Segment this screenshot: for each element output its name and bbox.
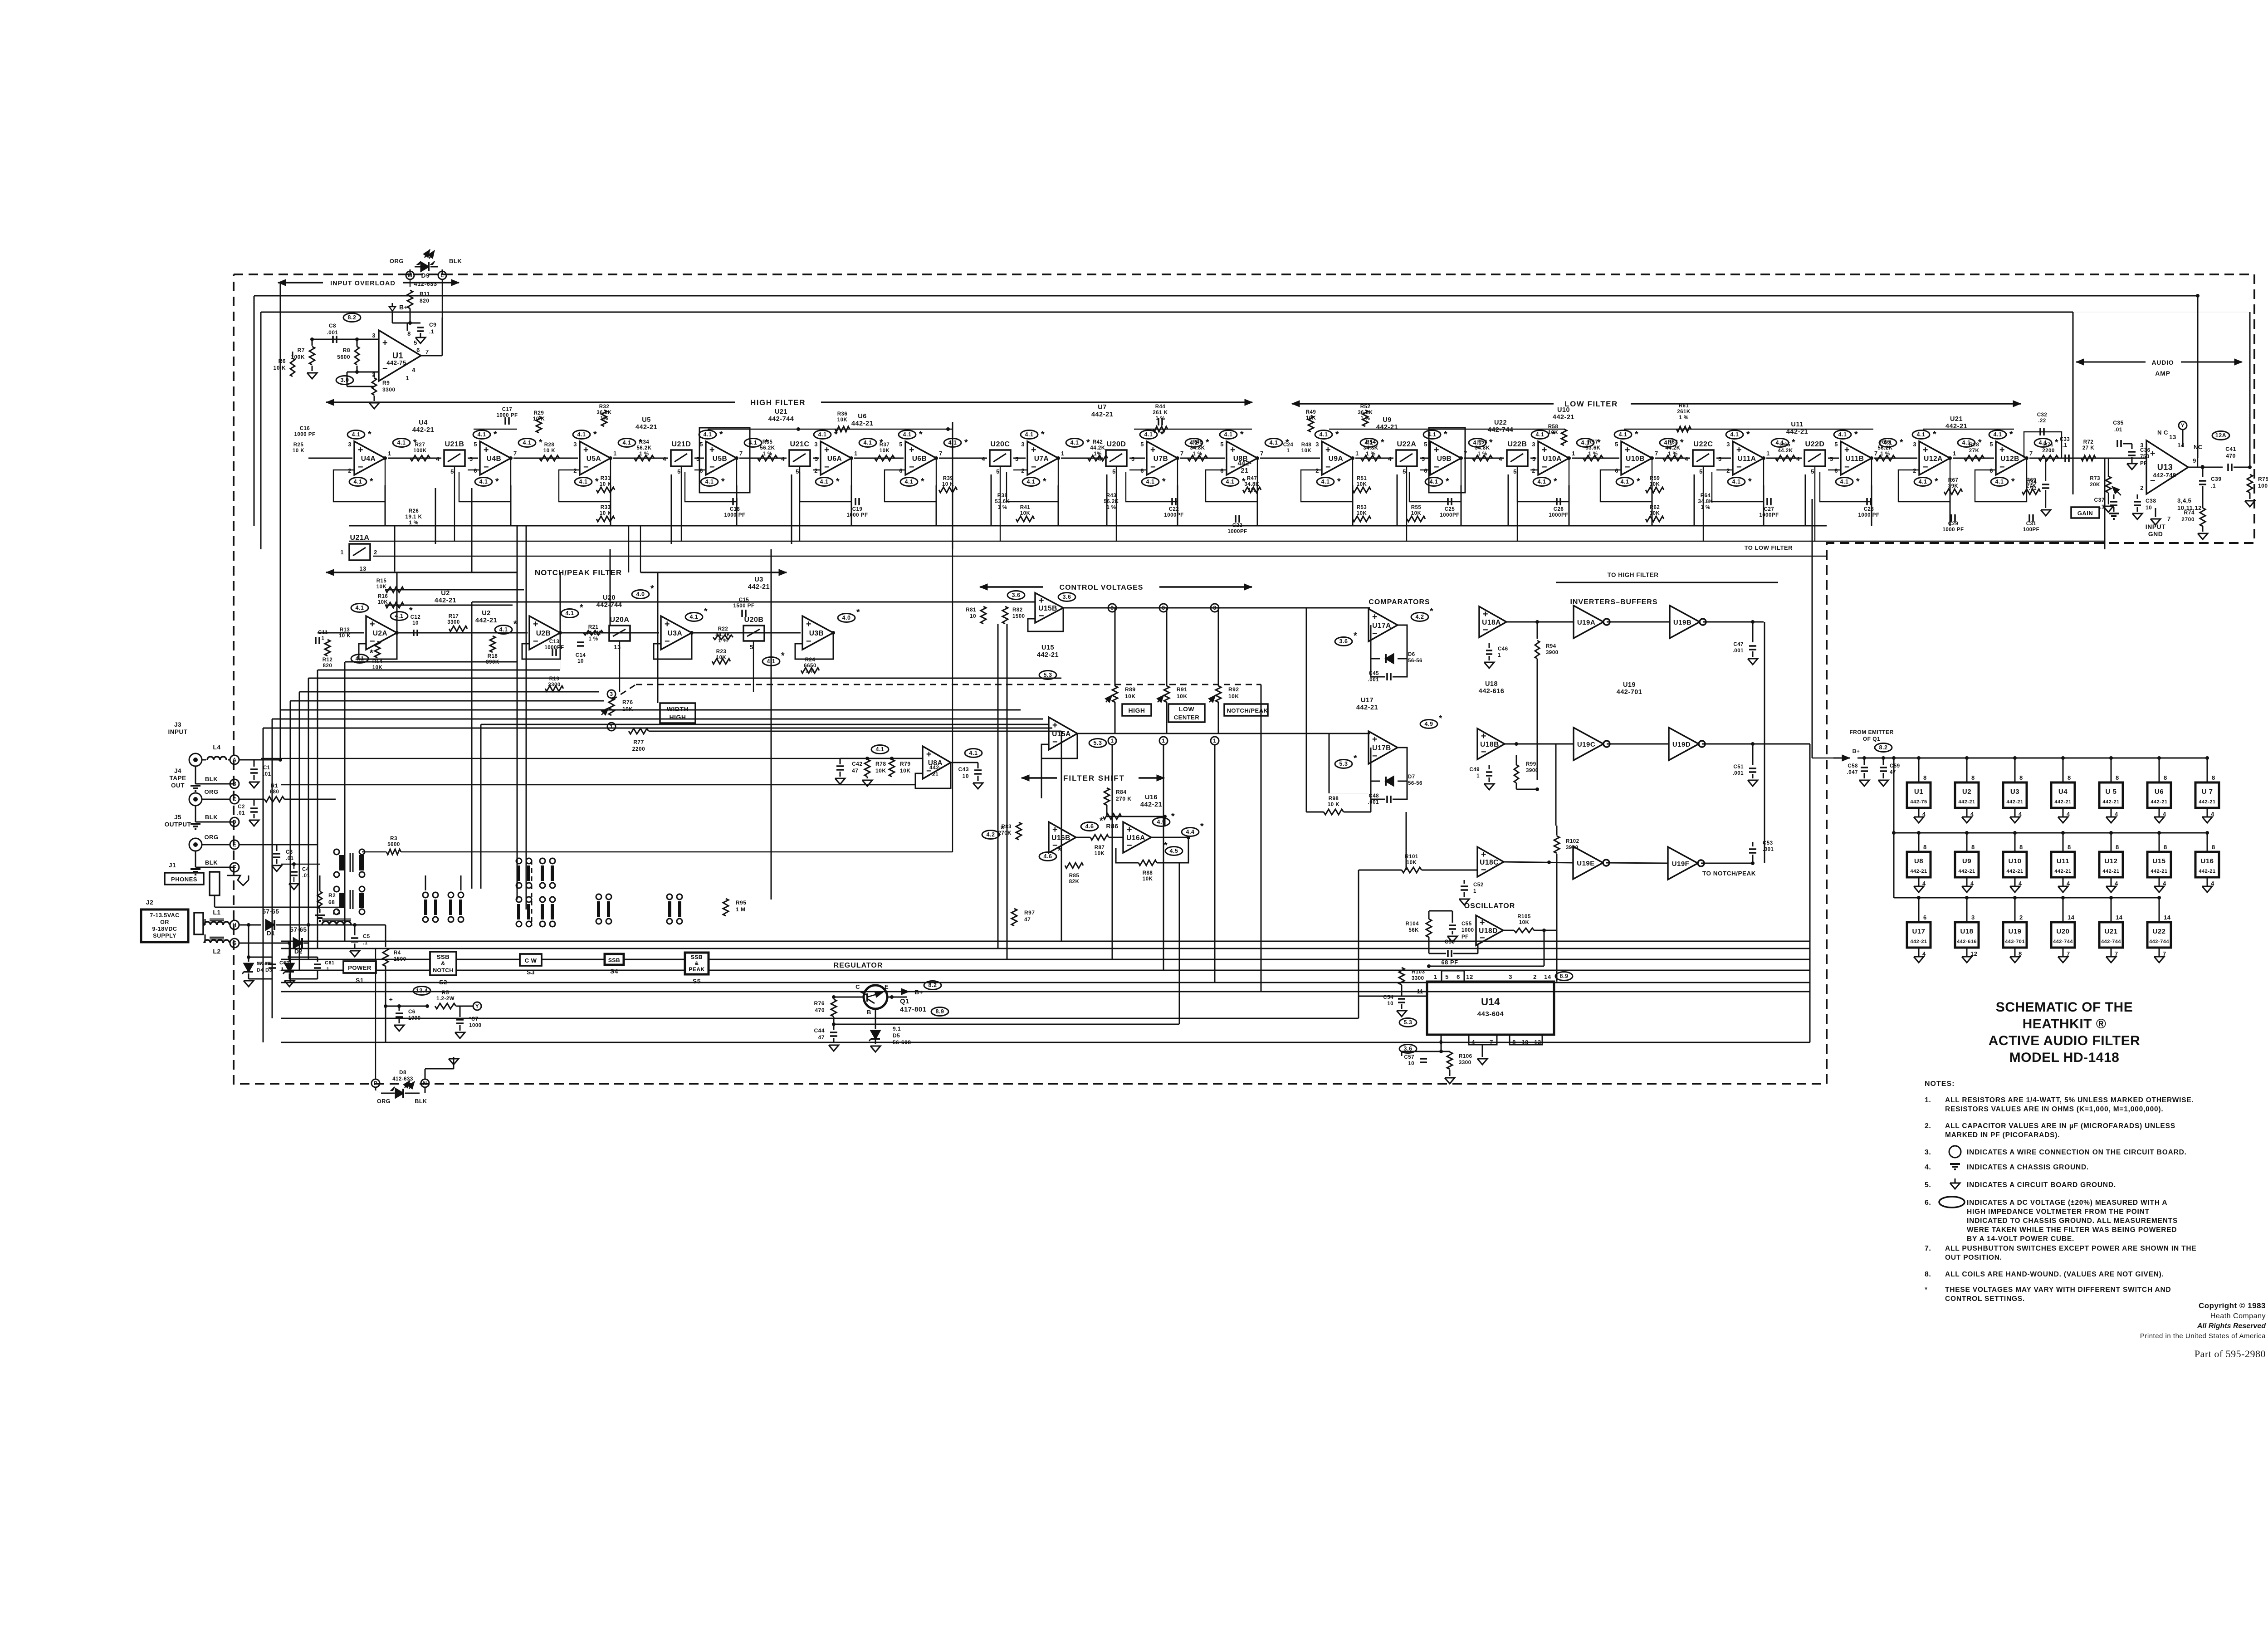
switch S2 SSB-NOTCH box redraw (430, 952, 456, 975)
svg-text:C43: C43 (958, 766, 969, 772)
label R57 value (1585, 440, 1600, 457)
svg-text:3900: 3900 (1526, 768, 1539, 773)
wire top feedback bus 1 (254, 295, 2198, 297)
label GAIN box (2071, 507, 2099, 518)
label R63 value (1665, 440, 1680, 457)
wire input-overload arrow (278, 279, 459, 286)
svg-text:C6: C6 (408, 1009, 415, 1015)
svg-text:R28: R28 (544, 442, 555, 448)
svg-text:2: 2 (374, 549, 377, 556)
resistor symbol feedback (1243, 487, 1261, 493)
wire feedback loop U11A (1712, 456, 1765, 502)
svg-text:R9: R9 (382, 380, 390, 386)
svg-text:4.1: 4.1 (354, 479, 362, 485)
gate U19C (1574, 728, 1610, 760)
svg-text:S3: S3 (527, 968, 535, 976)
svg-text:5: 5 (1140, 441, 1144, 448)
svg-text:+: + (382, 338, 388, 348)
svg-text:1 %: 1 % (997, 505, 1007, 510)
svg-text:56K: 56K (1408, 928, 1419, 933)
svg-text:3: 3 (1913, 441, 1916, 448)
svg-text:5: 5 (1513, 468, 1517, 475)
svg-text:U3: U3 (2010, 788, 2019, 796)
wire Q1 emitter (887, 995, 907, 999)
svg-text:3900: 3900 (1566, 845, 1579, 851)
resistor symbol on row (539, 455, 559, 461)
svg-text:19.1 K: 19.1 K (406, 514, 422, 520)
resistor R11 820 (407, 290, 430, 308)
svg-text:R64: R64 (1701, 493, 1711, 499)
svg-text:C25: C25 (1445, 507, 1455, 512)
resistor symbol on row (1875, 455, 1895, 461)
svg-text:1: 1 (1162, 738, 1165, 744)
svg-text:H: H (232, 922, 236, 928)
svg-text:*: * (1001, 824, 1004, 834)
svg-text:NOTCH/PEAK: NOTCH/PEAK (1227, 707, 1268, 714)
voltage oval out U5A (618, 438, 642, 448)
svg-text:*: * (495, 477, 499, 487)
svg-text:10 K: 10 K (600, 511, 611, 516)
svg-text:8: 8 (2019, 774, 2023, 781)
svg-text:.1: .1 (2100, 504, 2105, 510)
svg-text:HIGH: HIGH (1129, 707, 1145, 714)
label CONTROL VOLTAGES text (1043, 582, 1159, 592)
capacitor symbol feedback (733, 498, 737, 505)
capacitor symbol feedback (1448, 498, 1452, 505)
svg-text:442-701: 442-701 (1617, 689, 1642, 696)
svg-text:U22D: U22D (1805, 440, 1825, 448)
op-amp U15B (1035, 593, 1063, 623)
svg-text:470: 470 (815, 1007, 825, 1013)
wire U1 pin8 stub (407, 323, 408, 331)
capacitor C39 .1 (2199, 467, 2222, 508)
svg-text:10K: 10K (1357, 511, 1367, 516)
svg-text:*: * (409, 606, 413, 616)
svg-text:*: * (2055, 438, 2058, 448)
svg-text:34.8K: 34.8K (1363, 445, 1378, 451)
svg-text:BLK: BLK (415, 1098, 427, 1105)
svg-text:8.: 8. (1925, 1271, 1931, 1278)
svg-text:−: − (1736, 462, 1742, 472)
svg-text:1 %: 1 % (1193, 451, 1202, 457)
svg-text:U19D: U19D (1672, 741, 1691, 748)
resistor symbol on row (2038, 455, 2058, 461)
svg-text:+: + (1923, 445, 1928, 455)
svg-text:4.1: 4.1 (820, 479, 829, 485)
svg-text:U21: U21 (775, 408, 787, 416)
gate U19B (1670, 606, 1706, 638)
wire U15B fb (1028, 608, 1063, 631)
svg-text:R87: R87 (1095, 845, 1105, 851)
label R28 value (1969, 442, 1980, 454)
ovals notch (351, 584, 860, 666)
svg-text:R88: R88 (1143, 870, 1153, 876)
svg-text:R3: R3 (390, 836, 397, 841)
svg-text:2200: 2200 (632, 746, 645, 752)
voltage oval out U7B (1185, 438, 1209, 448)
svg-text:U2: U2 (441, 590, 450, 597)
capacitor C4 .01 (281, 862, 320, 890)
svg-text:HIGH IMPEDANCE VOLTMETER FROM: HIGH IMPEDANCE VOLTMETER FROM THE POINT (1967, 1208, 2150, 1216)
svg-text:6: 6 (1140, 467, 1144, 474)
svg-text:U2A: U2A (373, 630, 388, 637)
svg-text:442-21: 442-21 (2006, 869, 2023, 874)
IC U11 442-21 power (2051, 831, 2075, 892)
svg-text:U10: U10 (2008, 857, 2021, 865)
svg-text:OUT POSITION.: OUT POSITION. (1945, 1254, 2002, 1261)
svg-text:4.1: 4.1 (864, 440, 872, 446)
svg-text:1: 1 (1061, 450, 1065, 457)
svg-text:*: * (1792, 438, 1795, 448)
IC U6 442-21 power (2147, 756, 2171, 823)
svg-text:*: * (1935, 477, 1938, 487)
svg-text:R42: R42 (1093, 440, 1103, 445)
label R23 notch (716, 649, 727, 660)
label R22 notch (715, 626, 730, 644)
svg-text:10K: 10K (1650, 482, 1660, 487)
svg-text:5: 5 (1112, 468, 1116, 475)
svg-text:*: * (919, 430, 923, 440)
label R55 value (1411, 505, 1422, 516)
svg-text:GAIN: GAIN (2077, 510, 2093, 517)
svg-text:U3B: U3B (809, 630, 824, 637)
svg-text:4: 4 (1388, 455, 1392, 462)
capacitor C34 .01 (2026, 458, 2051, 516)
svg-text:R76: R76 (814, 1000, 825, 1007)
svg-text:1000 PF: 1000 PF (724, 513, 746, 518)
svg-text:C14: C14 (576, 653, 586, 658)
svg-text:R73: R73 (2090, 476, 2100, 481)
wire feedback loop U7A (1007, 456, 1060, 502)
wire top-right frame (2197, 296, 2198, 467)
svg-text:*: * (1335, 430, 1339, 440)
svg-text:442-616: 442-616 (1479, 688, 1505, 695)
svg-text:U8: U8 (1914, 857, 1923, 865)
note 1. (1925, 1096, 2194, 1113)
svg-text:R102: R102 (1566, 839, 1579, 844)
voltage oval below U11B (1836, 477, 1860, 487)
svg-text:R69: R69 (2026, 478, 2037, 483)
svg-text:34.8K: 34.8K (1190, 445, 1205, 451)
svg-text:BLK: BLK (205, 776, 218, 782)
svg-text:8: 8 (407, 330, 411, 337)
capacitor symbols notch (316, 610, 746, 656)
wire J5 shield (191, 851, 239, 875)
svg-text:U12: U12 (2104, 857, 2117, 865)
op-amp U1 442-75 (372, 330, 429, 381)
svg-text:−: − (1052, 841, 1058, 851)
IC U8 442-21 power (1907, 831, 1931, 892)
svg-text:1000: 1000 (1461, 928, 1474, 933)
resistor symbol feedback (1353, 516, 1371, 522)
capacitor C62 .1 (249, 957, 289, 979)
svg-text:56-56: 56-56 (1408, 781, 1422, 786)
svg-text:*: * (593, 430, 597, 440)
svg-text:U 7: U 7 (2202, 788, 2213, 796)
node Y at U13 (2179, 421, 2187, 447)
title SCHEMATIC OF THE HEATHKIT (1989, 1000, 2141, 1065)
svg-text:U19E: U19E (1577, 860, 1595, 867)
op-amp U11B (1834, 440, 1877, 476)
svg-text:Copyright © 1983: Copyright © 1983 (2199, 1301, 2266, 1310)
svg-text:R4: R4 (394, 950, 401, 956)
svg-text:*: * (921, 477, 924, 487)
svg-text:10K: 10K (1548, 430, 1559, 435)
svg-text:INDICATED TO CHASSIS GROUND. A: INDICATED TO CHASSIS GROUND. ALL MEASURE… (1967, 1217, 2178, 1225)
svg-text:2: 2 (1532, 467, 1535, 474)
svg-text:4.4: 4.4 (1186, 829, 1195, 835)
svg-text:.1: .1 (279, 967, 284, 972)
op-amp U17B (1369, 731, 1398, 764)
svg-text:12.4: 12.4 (416, 988, 428, 994)
wire U19E out (1606, 863, 1668, 863)
svg-text:C57: C57 (1404, 1055, 1414, 1060)
svg-text:*: * (1041, 430, 1045, 440)
resistor symbol on row (1088, 455, 1108, 461)
svg-text:U19A: U19A (1577, 619, 1595, 626)
svg-text:C49: C49 (1469, 767, 1480, 772)
svg-text:−: − (806, 636, 811, 646)
svg-text:C47: C47 (1733, 642, 1744, 647)
svg-text:4.6: 4.6 (1044, 853, 1052, 860)
svg-text:NOTCH/PEAK FILTER: NOTCH/PEAK FILTER (535, 568, 622, 577)
label C29 value (1943, 521, 1964, 533)
svg-text:*: * (1086, 438, 1090, 448)
svg-text:Printed in the United States o: Printed in the United States of America (2140, 1332, 2266, 1340)
svg-text:U21A: U21A (350, 534, 370, 542)
svg-text:U18: U18 (1960, 928, 1973, 935)
oval 3.6 a (1007, 591, 1025, 600)
pot R76 10K (601, 698, 633, 715)
label B+ arrow (892, 988, 923, 996)
svg-text:SSB: SSB (437, 953, 450, 960)
svg-text:+: + (1031, 445, 1036, 455)
svg-text:C19: C19 (852, 507, 863, 512)
resistor R87 10K (1090, 835, 1109, 856)
svg-text:LOW FILTER: LOW FILTER (1564, 400, 1618, 408)
IC U18 442-616 power (1955, 896, 1979, 963)
wire comparator rail (1329, 733, 1369, 793)
svg-text:U21: U21 (1950, 416, 1963, 423)
svg-text:PEAK: PEAK (689, 966, 704, 973)
svg-text:5: 5 (1699, 468, 1703, 475)
svg-text:R78: R78 (875, 761, 886, 767)
svg-text:ALL COILS ARE HAND-WOUND. (VAL: ALL COILS ARE HAND-WOUND. (VALUES ARE NO… (1945, 1271, 2164, 1278)
svg-text:−: − (1325, 462, 1331, 472)
svg-text:U2: U2 (482, 610, 491, 617)
svg-text:G: G (232, 940, 237, 946)
capacitor C47 .001 (1733, 622, 1758, 665)
svg-text:C9: C9 (429, 322, 436, 328)
svg-text:U22A: U22A (1397, 440, 1417, 448)
voltage oval below U9A (1317, 477, 1341, 487)
label R47 value (1244, 476, 1259, 493)
label R69 value (2026, 478, 2037, 489)
wire cv columns down (1112, 745, 1215, 983)
svg-text:8: 8 (2019, 844, 2023, 851)
svg-text:*: * (704, 606, 708, 616)
svg-text:U1: U1 (392, 351, 403, 360)
svg-text:THESE VOLTAGES MAY VARY WITH D: THESE VOLTAGES MAY VARY WITH DIFFERENT S… (1945, 1286, 2171, 1294)
svg-text:BY A 14-VOLT POWER CUBE.: BY A 14-VOLT POWER CUBE. (1967, 1235, 2074, 1243)
wire verticals row-to-bus (385, 485, 1950, 526)
svg-text:.047: .047 (1847, 770, 1858, 775)
label C14 notch (576, 653, 586, 664)
svg-text:R98: R98 (1329, 796, 1339, 802)
svg-text:6.: 6. (1925, 1199, 1931, 1207)
svg-text:MARKED IN PF (PICOFARADS).: MARKED IN PF (PICOFARADS). (1945, 1131, 2060, 1139)
svg-text:OUTPUT: OUTPUT (165, 821, 191, 828)
svg-text:R59: R59 (1650, 476, 1660, 481)
svg-text:+: + (1999, 445, 2005, 455)
resistor R3 5600 (386, 836, 401, 855)
svg-text:−: − (1039, 611, 1044, 621)
svg-text:OF Q1: OF Q1 (1863, 736, 1881, 742)
note 5. (1925, 1181, 2116, 1189)
label INPUT GND (2146, 508, 2166, 538)
svg-text:R67: R67 (1948, 478, 1959, 483)
svg-text:8: 8 (2164, 844, 2167, 851)
svg-text:47: 47 (852, 768, 858, 774)
svg-text:5: 5 (677, 468, 681, 475)
wire U18B out (1505, 742, 1574, 746)
svg-text:3: 3 (610, 691, 613, 697)
box around U5B group (699, 428, 750, 493)
svg-text:OSCILLATOR: OSCILLATOR (1464, 902, 1515, 910)
svg-text:D3: D3 (265, 968, 272, 973)
svg-text:470: 470 (2226, 453, 2236, 459)
label HIGH FILTER text (735, 397, 821, 407)
svg-text:6: 6 (1220, 467, 1224, 474)
svg-text:412-633: 412-633 (392, 1076, 413, 1082)
svg-text:U6: U6 (2155, 788, 2164, 796)
label C16 value (294, 426, 316, 437)
svg-text:56-56: 56-56 (1408, 658, 1422, 664)
label U7 group (1091, 404, 1113, 418)
svg-text:U22B: U22B (1508, 440, 1527, 448)
svg-text:D1: D1 (267, 930, 275, 937)
svg-text:U9: U9 (1383, 416, 1392, 424)
svg-text:4.1: 4.1 (356, 605, 364, 611)
svg-text:R2: R2 (328, 892, 336, 899)
svg-text:R51: R51 (1357, 476, 1367, 481)
resistor R74 2700 (2181, 508, 2208, 539)
svg-text:U7: U7 (1098, 404, 1107, 411)
op-amp U16B (1049, 822, 1076, 853)
svg-text:4: 4 (1685, 455, 1688, 462)
voltage oval at U9A (1315, 430, 1339, 440)
svg-text:U18C: U18C (1480, 859, 1499, 866)
svg-text:Heath Company: Heath Company (2210, 1312, 2266, 1320)
pot R73 20K (2090, 458, 2121, 512)
label C24 value (1283, 442, 1294, 454)
voltage oval out U7A (1066, 438, 1090, 448)
svg-text:*: * (1354, 631, 1357, 641)
wire notch top feedback (385, 590, 524, 605)
svg-text:R48: R48 (1301, 442, 1312, 448)
voltage oval out U10B (1660, 438, 1684, 448)
svg-text:2.: 2. (1925, 1122, 1931, 1130)
svg-text:5: 5 (474, 441, 477, 448)
op-amp U17A (1369, 609, 1398, 641)
oval 4.9 U17B (1420, 714, 1442, 728)
svg-text:U13: U13 (2157, 463, 2173, 472)
svg-text:U20D: U20D (1107, 440, 1126, 448)
svg-text:+: + (824, 445, 830, 455)
label U22 group (1488, 419, 1514, 434)
svg-text:10K: 10K (900, 768, 911, 774)
wire J4 shield (191, 806, 239, 829)
voltage oval out U12A (1958, 438, 1982, 448)
oval 5.3 U14 (1399, 1018, 1417, 1027)
wire vertical x560 (254, 296, 255, 526)
svg-text:4: 4 (1796, 455, 1800, 462)
svg-text:261 K: 261 K (1153, 410, 1168, 416)
svg-text:*: * (1337, 477, 1341, 487)
wire right frame2 (2072, 312, 2074, 458)
svg-text:.001: .001 (1733, 771, 1744, 776)
resistor R99 3900 (1514, 755, 1539, 791)
svg-text:*: * (1240, 430, 1244, 440)
svg-text:68: 68 (328, 899, 335, 905)
svg-text:&: & (695, 961, 699, 966)
svg-text:4.1: 4.1 (1732, 479, 1741, 485)
svg-text:C52: C52 (1473, 882, 1484, 888)
wire mid verticals lower (395, 422, 2105, 1042)
wire feedback loop U5A (559, 456, 612, 502)
svg-text:1 %: 1 % (763, 451, 772, 457)
svg-text:R92: R92 (1228, 686, 1239, 693)
resistor symbol feedback (1407, 516, 1425, 522)
svg-text:1000PF: 1000PF (1759, 513, 1779, 518)
svg-text:C37: C37 (2094, 497, 2105, 503)
wire U1 pin2 branch (347, 372, 374, 386)
svg-text:4.1: 4.1 (704, 431, 712, 438)
resistor R82 1500 (1002, 606, 1025, 624)
svg-text:R5: R5 (442, 990, 449, 996)
svg-text:N: N (423, 1080, 427, 1086)
svg-text:2: 2 (573, 467, 577, 474)
svg-text:R84: R84 (1116, 789, 1127, 795)
svg-text:1 %: 1 % (1668, 451, 1677, 457)
svg-text:U20A: U20A (610, 616, 630, 624)
svg-text:SSB: SSB (608, 957, 620, 963)
IC U17 442-21 power (1907, 896, 1931, 963)
svg-text:R18: R18 (488, 654, 498, 659)
svg-text:10K: 10K (837, 417, 848, 423)
svg-text:*: * (494, 430, 497, 440)
svg-text:D8: D8 (399, 1070, 406, 1076)
switch S1 POWER box (343, 961, 376, 984)
ovals U16 (982, 812, 1204, 861)
op-amp U8B (1220, 440, 1263, 476)
wire R11 to U1 (408, 308, 412, 325)
capacitor C44 47 (814, 1024, 839, 1051)
svg-text:A: A (232, 757, 236, 763)
svg-text:TAPE: TAPE (169, 775, 186, 782)
label U21 group (1945, 416, 1967, 430)
IC U15 442-21 power (2147, 831, 2171, 892)
IC U14 443-604 (1427, 982, 1554, 1035)
svg-text:INDICATES A DC VOLTAGE (±20%): INDICATES A DC VOLTAGE (±20%) MEASURED W… (1967, 1199, 2167, 1207)
box around U9B group (1429, 428, 1465, 493)
wire U8A fb (915, 763, 951, 788)
svg-text:3: 3 (1110, 605, 1114, 611)
svg-text:442-21: 442-21 (1140, 801, 1162, 808)
svg-text:442-21: 442-21 (2006, 799, 2023, 805)
label R36 value (837, 411, 848, 423)
oval 3.6 U14 (1399, 1045, 1417, 1053)
